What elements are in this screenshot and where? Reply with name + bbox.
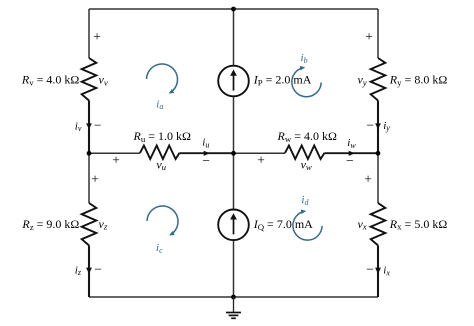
wire top rail [89, 8, 378, 10]
current arrow i_u [204, 151, 210, 156]
wire middle branch between IP and mid wire [233, 96, 235, 153]
mesh arrow i_d [293, 209, 322, 240]
svg-text:−: − [366, 118, 374, 133]
svg-text:−: − [202, 153, 210, 168]
svg-text:−: − [366, 262, 374, 277]
mesh arrow i_b [292, 66, 321, 97]
svg-text:−: − [346, 153, 354, 168]
svg-text:+: + [365, 29, 373, 44]
wire left rail upper segment [88, 9, 90, 58]
current arrow i_w [349, 151, 355, 156]
svg-text:+: + [112, 153, 120, 168]
wire right rail between mid node and Rx [377, 153, 379, 203]
resistor Rv [82, 58, 97, 101]
wire bottom rail [89, 296, 378, 298]
wire middle horizontal mid node to Rw [234, 152, 286, 154]
ground [226, 297, 241, 318]
wire right rail lower segment [377, 245, 379, 297]
wire middle branch between mid wire and IQ [233, 153, 235, 209]
current arrow i_y [375, 123, 381, 129]
resistor Rz [82, 203, 97, 245]
wire middle horizontal left of Ru [89, 152, 140, 154]
wire middle horizontal Rw to right node [325, 152, 379, 154]
wire left rail between Rv and mid node [88, 101, 90, 154]
wire middle branch top [233, 9, 235, 66]
svg-text:+: + [364, 172, 372, 187]
current arrow i_v [86, 123, 92, 129]
wire middle branch bottom [233, 240, 235, 297]
current source IQ [218, 210, 249, 241]
resistor Ry [371, 58, 386, 101]
current arrow i_z [86, 268, 92, 274]
node top middle [231, 7, 236, 12]
node left mid [87, 151, 92, 156]
node middle mid [231, 151, 236, 156]
resistor Ru [140, 146, 180, 160]
mesh arrow i_a [147, 64, 178, 94]
resistor Rw [285, 146, 325, 160]
wire left rail lower segment [88, 245, 90, 297]
wire middle horizontal Ru to mid node [180, 152, 234, 154]
svg-text:−: − [94, 262, 102, 277]
resistor Rx [371, 203, 386, 245]
wire right rail upper segment [377, 9, 379, 58]
wire left rail between mid node and Rz [88, 153, 90, 203]
current arrow i_x [375, 268, 381, 274]
svg-text:+: + [91, 172, 99, 187]
current source IP [218, 66, 249, 97]
mesh arrow i_c [147, 206, 178, 236]
node right mid [376, 151, 381, 156]
svg-text:+: + [257, 153, 265, 168]
svg-text:−: − [94, 118, 102, 133]
wire right rail between Ry and mid node [377, 101, 379, 154]
node bottom middle [231, 295, 236, 300]
svg-text:+: + [93, 29, 101, 44]
